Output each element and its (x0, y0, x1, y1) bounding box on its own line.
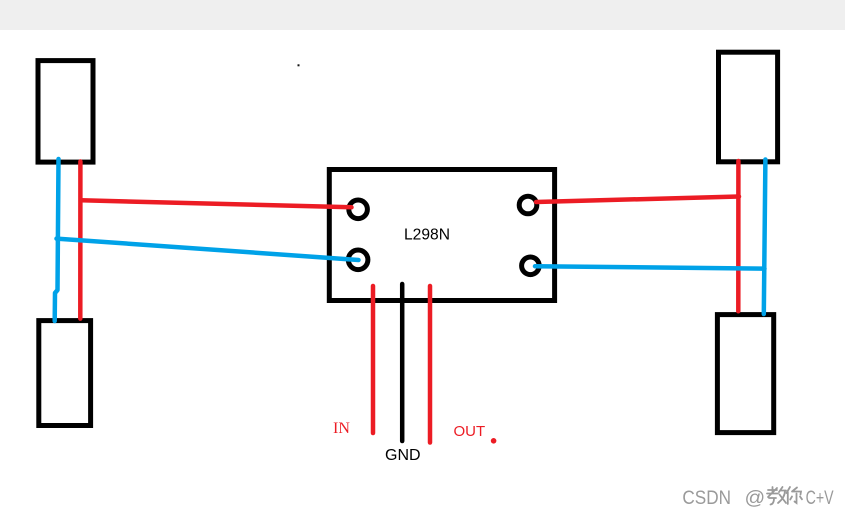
svg-text:C+V: C+V (806, 488, 834, 509)
wire blue left diagonal (to OUT2) (57, 239, 359, 260)
svg-text:OUT: OUT (454, 423, 486, 440)
svg-text:GND: GND (385, 447, 421, 464)
svg-text:L298N: L298N (404, 227, 450, 244)
terminal OUT3 (top-right circle) (519, 196, 537, 214)
watermark CSDN @教你C+V (682, 488, 835, 510)
terminal OUT4 (bottom-right circle) (522, 257, 540, 275)
watermark CJK glyph 教 (767, 487, 786, 505)
pin GND wire (black vertical) (400, 284, 405, 441)
motor M3 (top-right wheel) (719, 52, 778, 162)
pin IN wire (red vertical) (371, 286, 376, 433)
svg-text:@: @ (745, 488, 766, 509)
svg-text:IN: IN (333, 420, 350, 437)
wire blue left vertical (M1 to M2) (55, 159, 59, 321)
stray dot (298, 64, 300, 66)
node dot (red) (491, 438, 497, 444)
wire blue right vertical (M3 to M4) (764, 160, 766, 315)
motor M2 (bottom-left wheel) (39, 321, 91, 426)
wire red right horizontal (OUT3 to red vertical) (536, 197, 739, 203)
terminal OUT2 (bottom-left circle) (348, 250, 368, 270)
watermark CJK glyph 你 (787, 487, 803, 504)
terminal OUT1 (top-left circle) (349, 200, 368, 219)
driver U1 L298N body (329, 170, 554, 301)
wire red left vertical (M1 to M2) (78, 162, 83, 319)
svg-text:CSDN: CSDN (682, 488, 731, 509)
wire blue right horizontal (OUT4 to blue vertical) (535, 266, 765, 269)
wire red right vertical (M3 to M4) (736, 161, 741, 311)
pin OUT wire (red vertical) (428, 286, 433, 443)
motor M4 (bottom-right wheel) (717, 315, 773, 433)
wire red left horizontal (to OUT1) (81, 200, 352, 207)
motor M1 (top-left wheel) (38, 61, 93, 163)
top toolbar band (0, 0, 845, 30)
